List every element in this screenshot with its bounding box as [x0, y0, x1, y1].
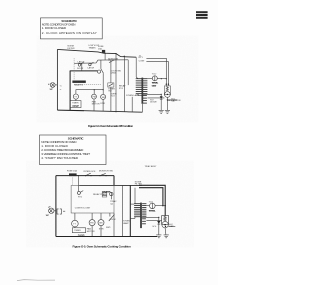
label: HV capacitor — [171, 98, 176, 102]
turntable motor M1 (bottom) — [72, 220, 79, 227]
svg-text:MOTOR: MOTOR — [87, 231, 95, 233]
wire: secondary out to diode (bottom) — [142, 216, 159, 218]
label: door interlock text — [77, 67, 95, 70]
svg-text:CUTOUT: CUTOUT — [152, 86, 157, 88]
wire: fan motor feed (bottom) — [91, 213, 93, 220]
wire: display to rail — [74, 226, 76, 229]
wire: HV feed rail lower (dark) — [139, 188, 163, 206]
svg-text:THERMAL: THERMAL — [152, 81, 159, 84]
wire: HV feed rail upper (dark) — [139, 185, 165, 215]
svg-text:DIODE: DIODE — [150, 102, 157, 104]
svg-text:TIMER: TIMER — [74, 230, 81, 232]
svg-text:TCO: TCO — [152, 73, 157, 75]
svg-text:THERMAL: THERMAL — [149, 210, 157, 213]
svg-text:T.O.35E9: T.O.35E9 — [196, 12, 203, 14]
transformer T1 filament winding (bottom) — [142, 219, 146, 224]
ground (diode) — [159, 110, 164, 113]
svg-text:¬o: ¬o — [60, 85, 62, 87]
transformer T1 primary winding — [136, 57, 143, 95]
svg-text:Figure O-5. Oven Schematic-Coo: Figure O-5. Oven Schematic-Cooking Condi… — [73, 245, 132, 249]
wire: live feed horizontal (dark) — [70, 70, 98, 72]
svg-text:4. “START” PAD TOUCHED: 4. “START” PAD TOUCHED — [41, 156, 79, 160]
svg-text:RELAY RY2: RELAY RY2 — [74, 84, 84, 87]
wire: motors to bottom rail 1 — [91, 226, 93, 237]
relay contact RY1 (in control unit) — [77, 191, 83, 199]
notes box: schematic off-condition notes — [41, 18, 103, 39]
wire: left side vertical (line cord) — [56, 49, 58, 110]
wire: magnetron ground lead — [166, 97, 168, 110]
wire: secondary to thermal cutout (bottom) — [146, 205, 149, 207]
wire: cutout to magnetron node — [157, 78, 166, 80]
wire: secondary to thermal cutout — [147, 78, 152, 80]
wire: magnetron anode to capacitor — [167, 99, 177, 101]
HV diode CR1 (bottom) — [153, 217, 161, 235]
node motor row B — [103, 89, 104, 90]
wire: bottom rail (bottom schematic) — [56, 236, 157, 238]
wire: lamp return — [131, 97, 133, 112]
oven lamp label (bottom) — [123, 219, 130, 224]
notes box: schematic cooking-condition notes — [40, 135, 107, 165]
svg-text:SM: SM — [102, 97, 105, 99]
svg-text:FUSE 15A: FUSE 15A — [67, 170, 77, 173]
svg-text:STIR: STIR — [99, 229, 104, 231]
control unit box — [71, 186, 114, 214]
magnetron V1 — [164, 84, 181, 102]
turntable motor M1 — [73, 94, 78, 99]
svg-text:CAP: CAP — [169, 225, 174, 228]
thermal cutout TCO1 — [152, 73, 159, 87]
wire: filament lead (bottom) — [146, 219, 161, 221]
svg-text:LATCH: LATCH — [78, 60, 85, 63]
svg-text:1. DOOR CLOSED: 1. DOOR CLOSED — [42, 26, 67, 30]
svg-text:FM: FM — [90, 223, 93, 225]
node on rail L — [124, 56, 125, 57]
HV diode CR1 — [150, 94, 163, 110]
label: thermal cutout text — [111, 94, 117, 98]
svg-text:CONT: CONT — [139, 60, 146, 62]
relay coil (in control unit) — [102, 191, 107, 197]
label: door switch text — [111, 70, 121, 74]
wire: timer to bottom rail — [110, 87, 112, 111]
wire: rail into relay — [78, 175, 79, 191]
wire: magnetron feed rail lower — [146, 62, 168, 85]
fuse F1 (bottom schematic) — [67, 170, 77, 176]
label: noise filter (on L rail) — [68, 46, 76, 50]
stirrer motor M3 (bottom) — [98, 220, 104, 231]
footer faint pencil mark — [17, 280, 55, 281]
node on rail L at fuse out — [105, 53, 106, 54]
node on rail L — [115, 53, 116, 54]
page header publication number block — [196, 11, 208, 19]
svg-text:DISP: DISP — [73, 104, 80, 108]
node anode-capacitor junction — [167, 99, 168, 100]
wire: live feed vertical (dark) — [69, 71, 71, 110]
fuse F1 15A — [98, 46, 105, 53]
svg-text:-e: -e — [60, 89, 62, 91]
stirrer motor M3 — [100, 94, 105, 104]
wire: drop to interlock — [81, 63, 83, 71]
label: relay contact feed — [139, 57, 146, 63]
cook switch S6 (bottom) — [106, 213, 116, 229]
timer display box — [70, 101, 81, 108]
wire: cutout to magnetron node (bottom) — [155, 205, 165, 207]
wire: drop to control rail — [113, 176, 115, 186]
node HV B — [166, 78, 167, 79]
svg-text:MOTOR: MOTOR — [92, 104, 100, 106]
node magnetron filament 1 — [166, 84, 167, 85]
node motor row A — [94, 89, 95, 90]
svg-text:CAP: CAP — [171, 100, 176, 103]
svg-text:TRANS: TRANS — [89, 46, 97, 49]
interlock switch S1 (bottom) — [84, 171, 97, 176]
wire: vertical lamp feed — [123, 56, 125, 111]
node magnetron filament 2 — [168, 84, 169, 85]
svg-text:LATCH: LATCH — [88, 67, 95, 70]
wire: turntable motor feed — [74, 213, 76, 220]
wire: lamp branch vertical — [121, 186, 123, 237]
dashed door link (bottom) — [72, 178, 74, 186]
svg-text:DOOR: DOOR — [77, 68, 84, 70]
wire: link rail L to interlock row — [104, 53, 106, 60]
node diode top (bottom) — [158, 217, 159, 218]
svg-text:TRIAC ASSY: TRIAC ASSY — [145, 165, 157, 168]
ground (magnetron) — [165, 110, 170, 113]
wire: stirrer motor feed (bottom) — [100, 213, 102, 220]
transformer T1 core — [141, 78, 144, 113]
wire: control unit return to rail — [113, 213, 115, 237]
wire: power line rail L (top) — [57, 49, 136, 57]
transformer T1 HV secondary winding — [143, 79, 148, 94]
wire: stirrer motor to rail — [102, 99, 104, 111]
latch switch S2 — [78, 60, 85, 66]
wire: filament lead upper — [147, 97, 164, 99]
wire: control rail — [79, 184, 141, 186]
monitor switch S4 — [108, 58, 118, 62]
wire: interlock row — [74, 60, 128, 64]
wire: anode to HV cap (bottom) — [168, 226, 175, 228]
wire: bottom rail (neutral) — [57, 109, 84, 112]
triac Q1 (in control unit) — [110, 192, 117, 205]
door sensing dashed link — [73, 58, 75, 80]
power plug P1 — [48, 83, 62, 91]
svg-text:FM: FM — [93, 97, 96, 99]
power plug P1 (bottom) — [46, 207, 65, 218]
label: cook relay — [119, 85, 126, 90]
ground (diode, bottom) — [156, 235, 161, 238]
wire: magnetron feed rail upper — [146, 58, 166, 84]
node HV A — [161, 78, 162, 79]
svg-text:NAVSUP 2: NAVSUP 2 — [196, 14, 204, 17]
svg-text:TM 10-73: TM 10-73 — [196, 18, 203, 20]
wire: vertical to relay contact — [127, 60, 129, 85]
transformer T1 filament winding — [143, 96, 147, 104]
wire: motor row — [76, 90, 103, 94]
wire: motors to bottom rail 2 — [100, 226, 102, 237]
thermal cutout TCO1 (bottom) — [149, 201, 157, 212]
svg-text:MONITOR SW: MONITOR SW — [99, 171, 113, 173]
ground (magnetron, bottom) — [164, 235, 169, 238]
node diode top — [161, 94, 162, 95]
monitor switch S4 (bottom) — [99, 171, 113, 177]
svg-text:Figure O-4. Oven Schematic-Off: Figure O-4. Oven Schematic-Off Condition — [88, 124, 133, 128]
transformer T1 HV secondary (bottom) — [142, 204, 146, 217]
interlock relay label (dark strip) — [72, 81, 85, 87]
transformer T1 core (bottom) — [140, 203, 143, 229]
wire: fan motor to rail — [93, 99, 95, 111]
svg-text:H.V.: H.V. — [153, 226, 157, 228]
wire: TT motor to rail — [75, 99, 77, 100]
magnetron V1 (bottom) — [162, 216, 169, 228]
wire: vertical to timer switch — [115, 54, 117, 113]
svg-text:INTERLOCK: INTERLOCK — [84, 171, 97, 173]
wire: interlock row to timer switch — [110, 60, 112, 83]
node anode junction (bottom) — [165, 226, 166, 227]
timer switch box S5 — [108, 83, 115, 93]
interlock switch S1 with actuator — [98, 60, 104, 73]
wire: interlock to stirrer motor — [102, 73, 104, 94]
fan motor M2 (bottom) — [87, 220, 95, 233]
node HV A (bottom) — [162, 205, 163, 206]
svg-text:(2ND): (2ND) — [111, 73, 117, 75]
label: HV capacitor (bottom) — [169, 224, 174, 228]
display unit box — [72, 228, 85, 238]
svg-text:SM: SM — [99, 223, 102, 225]
transformer T1 primary (bottom) — [130, 188, 140, 219]
wire: secondary out to diode — [143, 93, 161, 95]
svg-text:TCO: TCO — [111, 96, 116, 98]
dashed interlock linkage — [74, 84, 101, 86]
node HV B (bottom) — [165, 205, 166, 206]
fan motor M2 — [92, 94, 100, 105]
wire: top rail (live, cooking) — [56, 175, 114, 177]
latch switch S3 — [89, 62, 94, 66]
wire: stub to fan motor — [93, 90, 95, 95]
svg-text:FILTER: FILTER — [68, 48, 76, 50]
wire: left side vertical (bottom) — [55, 176, 57, 237]
label: line bypass — [89, 45, 100, 49]
svg-text:INTERLOCK: INTERLOCK — [73, 82, 84, 84]
wire: magnetron to ground (bottom) — [164, 228, 167, 235]
wire: transformer primary branch — [129, 186, 131, 237]
svg-text:2. CLOCK APPEARS ON DISPLAY: 2. CLOCK APPEARS ON DISPLAY — [42, 31, 97, 35]
svg-text:LAMP: LAMP — [123, 222, 129, 225]
label: noise filter (bottom) — [135, 182, 143, 186]
svg-text:CONTROL UNIT: CONTROL UNIT — [75, 207, 91, 209]
svg-text:COOK: COOK — [110, 219, 117, 221]
svg-text:15A: 15A — [98, 47, 102, 50]
